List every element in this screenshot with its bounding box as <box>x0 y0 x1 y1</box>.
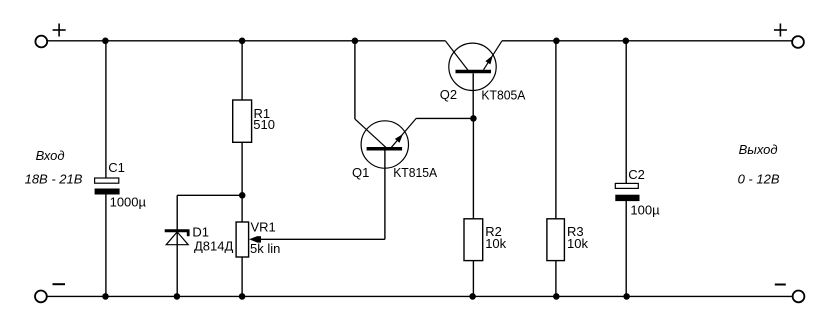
svg-text:0 - 12В: 0 - 12В <box>738 172 780 187</box>
emitter arrow of Q1 <box>395 134 403 143</box>
output - terminal <box>793 291 805 303</box>
resistor R3 <box>547 219 565 261</box>
svg-text:C1: C1 <box>108 160 125 175</box>
wire: C2 bottom <box>625 201 627 297</box>
svg-text:10k: 10k <box>567 236 588 251</box>
node: bottom rail R2 junction <box>469 293 476 300</box>
node: bottom rail C1 junction <box>102 293 109 300</box>
node: bottom rail C2 junction <box>623 293 630 300</box>
wire: Q2 collector diagonal <box>445 41 468 70</box>
svg-text:5k lin: 5k lin <box>250 241 280 256</box>
svg-text:10k: 10k <box>485 236 506 251</box>
node: bottom rail R3 junction <box>553 293 560 300</box>
wire: top rail left (input + to Q2 collector) <box>47 40 445 42</box>
wire: R3 top <box>555 41 557 219</box>
resistor R1 <box>233 100 252 142</box>
svg-text:Д814Д: Д814Д <box>194 238 233 253</box>
node: bottom rail D1 junction <box>174 293 181 300</box>
wire: Q2 base down to node <box>472 73 474 118</box>
wire: C2 top <box>625 41 627 184</box>
node: R1/VR1/D1 junction <box>239 192 246 199</box>
svg-text:Вход: Вход <box>36 148 65 163</box>
wire: R1 bottom to VR1 top <box>241 142 243 222</box>
wire: zener branch vertical <box>176 195 178 296</box>
svg-text:Q1: Q1 <box>352 165 369 180</box>
node: top rail R3 junction <box>553 38 560 45</box>
minus sign (input) <box>53 283 66 285</box>
minus sign (output) <box>775 284 786 286</box>
zener diode D1 <box>165 231 190 245</box>
node: Q2 base / Q1 emitter / R2 junction <box>470 115 477 122</box>
wire: C1 vertical <box>105 41 107 179</box>
plus sign (input) <box>53 24 66 37</box>
svg-text:VR1: VR1 <box>251 220 276 235</box>
output + terminal <box>792 36 804 48</box>
wire: R1 top <box>241 41 243 100</box>
plus sign (output) <box>774 24 787 37</box>
wire: Q2 emitter diagonal <box>484 41 503 70</box>
svg-text:KT815A: KT815A <box>393 165 437 180</box>
wiper arrow of VR1 <box>249 236 258 243</box>
wire: R2 bottom <box>472 261 474 297</box>
transistor Q2 <box>449 43 496 90</box>
wire: top rail right (Q2 emitter to output +) <box>502 40 792 42</box>
svg-text:C2: C2 <box>628 167 645 182</box>
svg-text:Q2: Q2 <box>440 87 457 102</box>
wire: zener branch horizontal <box>177 194 242 196</box>
resistor R2 <box>464 219 483 261</box>
svg-text:510: 510 <box>253 117 275 132</box>
svg-text:18В - 21В: 18В - 21В <box>25 172 83 187</box>
wire: node to R2 top <box>472 118 474 218</box>
capacitor C1 <box>95 178 120 195</box>
wire: R3 bottom <box>555 261 557 297</box>
svg-text:100µ: 100µ <box>630 202 660 217</box>
transistor Q1 <box>361 121 408 168</box>
potentiometer VR1 <box>236 222 249 257</box>
wire: VR1 bottom <box>241 257 243 296</box>
wire: wiper to Q1 base <box>259 238 385 240</box>
svg-text:KT805A: KT805A <box>481 88 525 103</box>
emitter arrow of Q2 <box>485 55 492 64</box>
wire: Q1 collector to top rail <box>354 41 356 119</box>
svg-text:1000µ: 1000µ <box>110 195 147 210</box>
node: top rail Q1 collector junction <box>352 38 359 45</box>
input - terminal <box>35 291 47 303</box>
capacitor C2 <box>615 183 639 201</box>
wire: Q1 emitter diagonal <box>391 118 416 147</box>
node: top rail C2 junction <box>623 38 630 45</box>
input + terminal <box>35 36 47 48</box>
wire: Q1 emitter to Q2 base node <box>416 117 473 119</box>
node: top rail R1 junction <box>239 38 246 45</box>
svg-text:Выход: Выход <box>739 142 778 157</box>
wire: bottom rail <box>47 295 793 297</box>
node: bottom rail VR1 junction <box>239 293 246 300</box>
node: top rail C1 junction <box>102 38 109 45</box>
